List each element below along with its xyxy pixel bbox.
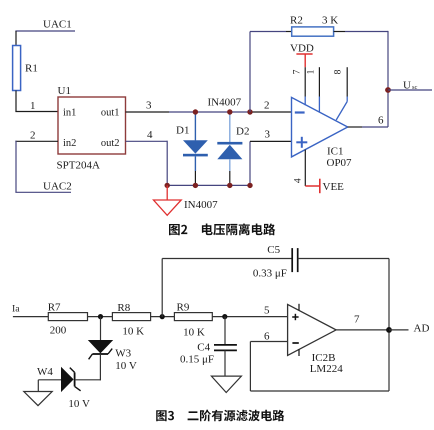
svg-text:200: 200 xyxy=(50,325,67,337)
capacitor C5 xyxy=(291,248,293,272)
svg-text:R7: R7 xyxy=(48,302,61,314)
svg-text:1: 1 xyxy=(30,100,36,112)
op-amp U1 IC1 xyxy=(292,97,348,156)
pin 8 xyxy=(346,67,348,96)
zener W3 xyxy=(100,317,102,340)
pin 1 xyxy=(318,67,320,96)
wire C5 to output xyxy=(298,258,389,260)
svg-text:out2: out2 xyxy=(101,138,120,149)
svg-text:U1: U1 xyxy=(58,85,71,97)
svg-text:D1: D1 xyxy=(176,125,189,137)
svg-text:W4: W4 xyxy=(37,366,53,378)
svg-text:D2: D2 xyxy=(236,126,249,138)
wire feedback R2 right xyxy=(334,31,345,33)
svg-text:Ia: Ia xyxy=(12,303,20,314)
svg-text:5: 5 xyxy=(264,305,270,317)
resistor R1 xyxy=(13,46,21,91)
svg-text:10 V: 10 V xyxy=(68,398,90,410)
svg-text:10 K: 10 K xyxy=(122,326,144,338)
svg-text:OP07: OP07 xyxy=(327,157,353,169)
power stubs xyxy=(298,304,300,311)
wire C5 top xyxy=(161,259,163,318)
pin 7 xyxy=(304,67,306,96)
wire R1 top lead xyxy=(15,31,17,46)
wire UAC2 xyxy=(15,191,71,193)
wire R1 bottom lead xyxy=(15,91,17,112)
svg-text:10 K: 10 K xyxy=(183,327,205,339)
svg-text:4: 4 xyxy=(293,178,303,183)
wire bottom rail xyxy=(167,184,250,186)
junction dots bottom rail xyxy=(165,183,170,188)
ground C4 xyxy=(211,376,241,392)
svg-text:IN4007: IN4007 xyxy=(208,97,242,109)
svg-text:in1: in1 xyxy=(63,107,76,118)
svg-text:3 K: 3 K xyxy=(322,15,338,27)
svg-text:7: 7 xyxy=(293,69,303,74)
svg-text:C5: C5 xyxy=(267,244,280,256)
resistor R8 xyxy=(112,313,150,321)
diode D1 xyxy=(194,112,196,140)
svg-text:UAC2: UAC2 xyxy=(43,181,72,193)
node Usc output xyxy=(385,87,391,93)
wire feedback R2 left xyxy=(249,32,251,113)
svg-text:7: 7 xyxy=(354,314,360,326)
svg-text:R8: R8 xyxy=(117,302,130,314)
wire pin 3 to diodes rail xyxy=(126,111,170,113)
junction dots top rail xyxy=(193,109,198,114)
svg-text:4: 4 xyxy=(147,129,153,141)
svg-text:0.15 μF: 0.15 μF xyxy=(180,354,214,366)
resistor R2 xyxy=(292,27,334,36)
svg-text:2: 2 xyxy=(30,130,36,142)
ground W4 xyxy=(37,380,39,392)
svg-text:1: 1 xyxy=(307,69,317,74)
svg-text:R2: R2 xyxy=(290,15,303,27)
svg-text:U: U xyxy=(403,79,411,91)
wire xyxy=(88,316,113,318)
wire output pin 6 xyxy=(348,126,362,128)
svg-text:8: 8 xyxy=(333,69,343,74)
wire xyxy=(151,316,175,318)
svg-text:LM224: LM224 xyxy=(310,363,344,375)
svg-text:IN4007: IN4007 xyxy=(184,199,218,211)
svg-text:in2: in2 xyxy=(63,138,76,149)
svg-text:W3: W3 xyxy=(115,348,131,360)
svg-text:C4: C4 xyxy=(197,342,210,354)
wire input xyxy=(13,316,48,318)
svg-text:R9: R9 xyxy=(177,302,190,314)
op-amp IC2B xyxy=(288,304,337,355)
caption fig2 xyxy=(169,223,275,235)
svg-text:AD: AD xyxy=(414,323,430,335)
caption fig3 xyxy=(156,410,284,422)
svg-text:VDD: VDD xyxy=(290,43,314,55)
wire pin 1 xyxy=(15,111,58,113)
wire to pin 5 xyxy=(212,316,287,318)
wire pin 4 xyxy=(126,140,168,142)
svg-text:0.33 μF: 0.33 μF xyxy=(253,268,287,280)
resistor R9 xyxy=(174,313,212,321)
svg-text:sc: sc xyxy=(412,84,418,91)
svg-text:out1: out1 xyxy=(101,107,120,118)
wire pin 6 feedback xyxy=(250,341,287,343)
diode D2 xyxy=(229,112,231,142)
wire to noninverting input xyxy=(249,141,251,186)
opto-isolator U1 xyxy=(58,97,126,154)
svg-text:10 V: 10 V xyxy=(115,360,137,372)
wire UAC1 xyxy=(15,30,75,32)
zener W4 xyxy=(76,379,101,381)
svg-text:SPT204A: SPT204A xyxy=(57,160,100,172)
wire output AD xyxy=(336,329,389,331)
svg-text:UAC1: UAC1 xyxy=(43,19,72,31)
svg-text:3: 3 xyxy=(146,100,152,112)
ground red xyxy=(166,185,168,200)
svg-text:6: 6 xyxy=(378,115,384,127)
svg-text:IC1: IC1 xyxy=(327,146,344,158)
capacitor C4 xyxy=(224,317,226,345)
pin 4 / VEE xyxy=(304,150,306,186)
svg-text:6: 6 xyxy=(264,330,270,342)
wire UAC2 vertical xyxy=(15,141,17,193)
svg-text:VEE: VEE xyxy=(323,181,345,193)
svg-text:2: 2 xyxy=(264,100,270,112)
svg-text:3: 3 xyxy=(265,129,271,141)
resistor R7 xyxy=(48,313,87,321)
svg-text:R1: R1 xyxy=(25,63,38,75)
